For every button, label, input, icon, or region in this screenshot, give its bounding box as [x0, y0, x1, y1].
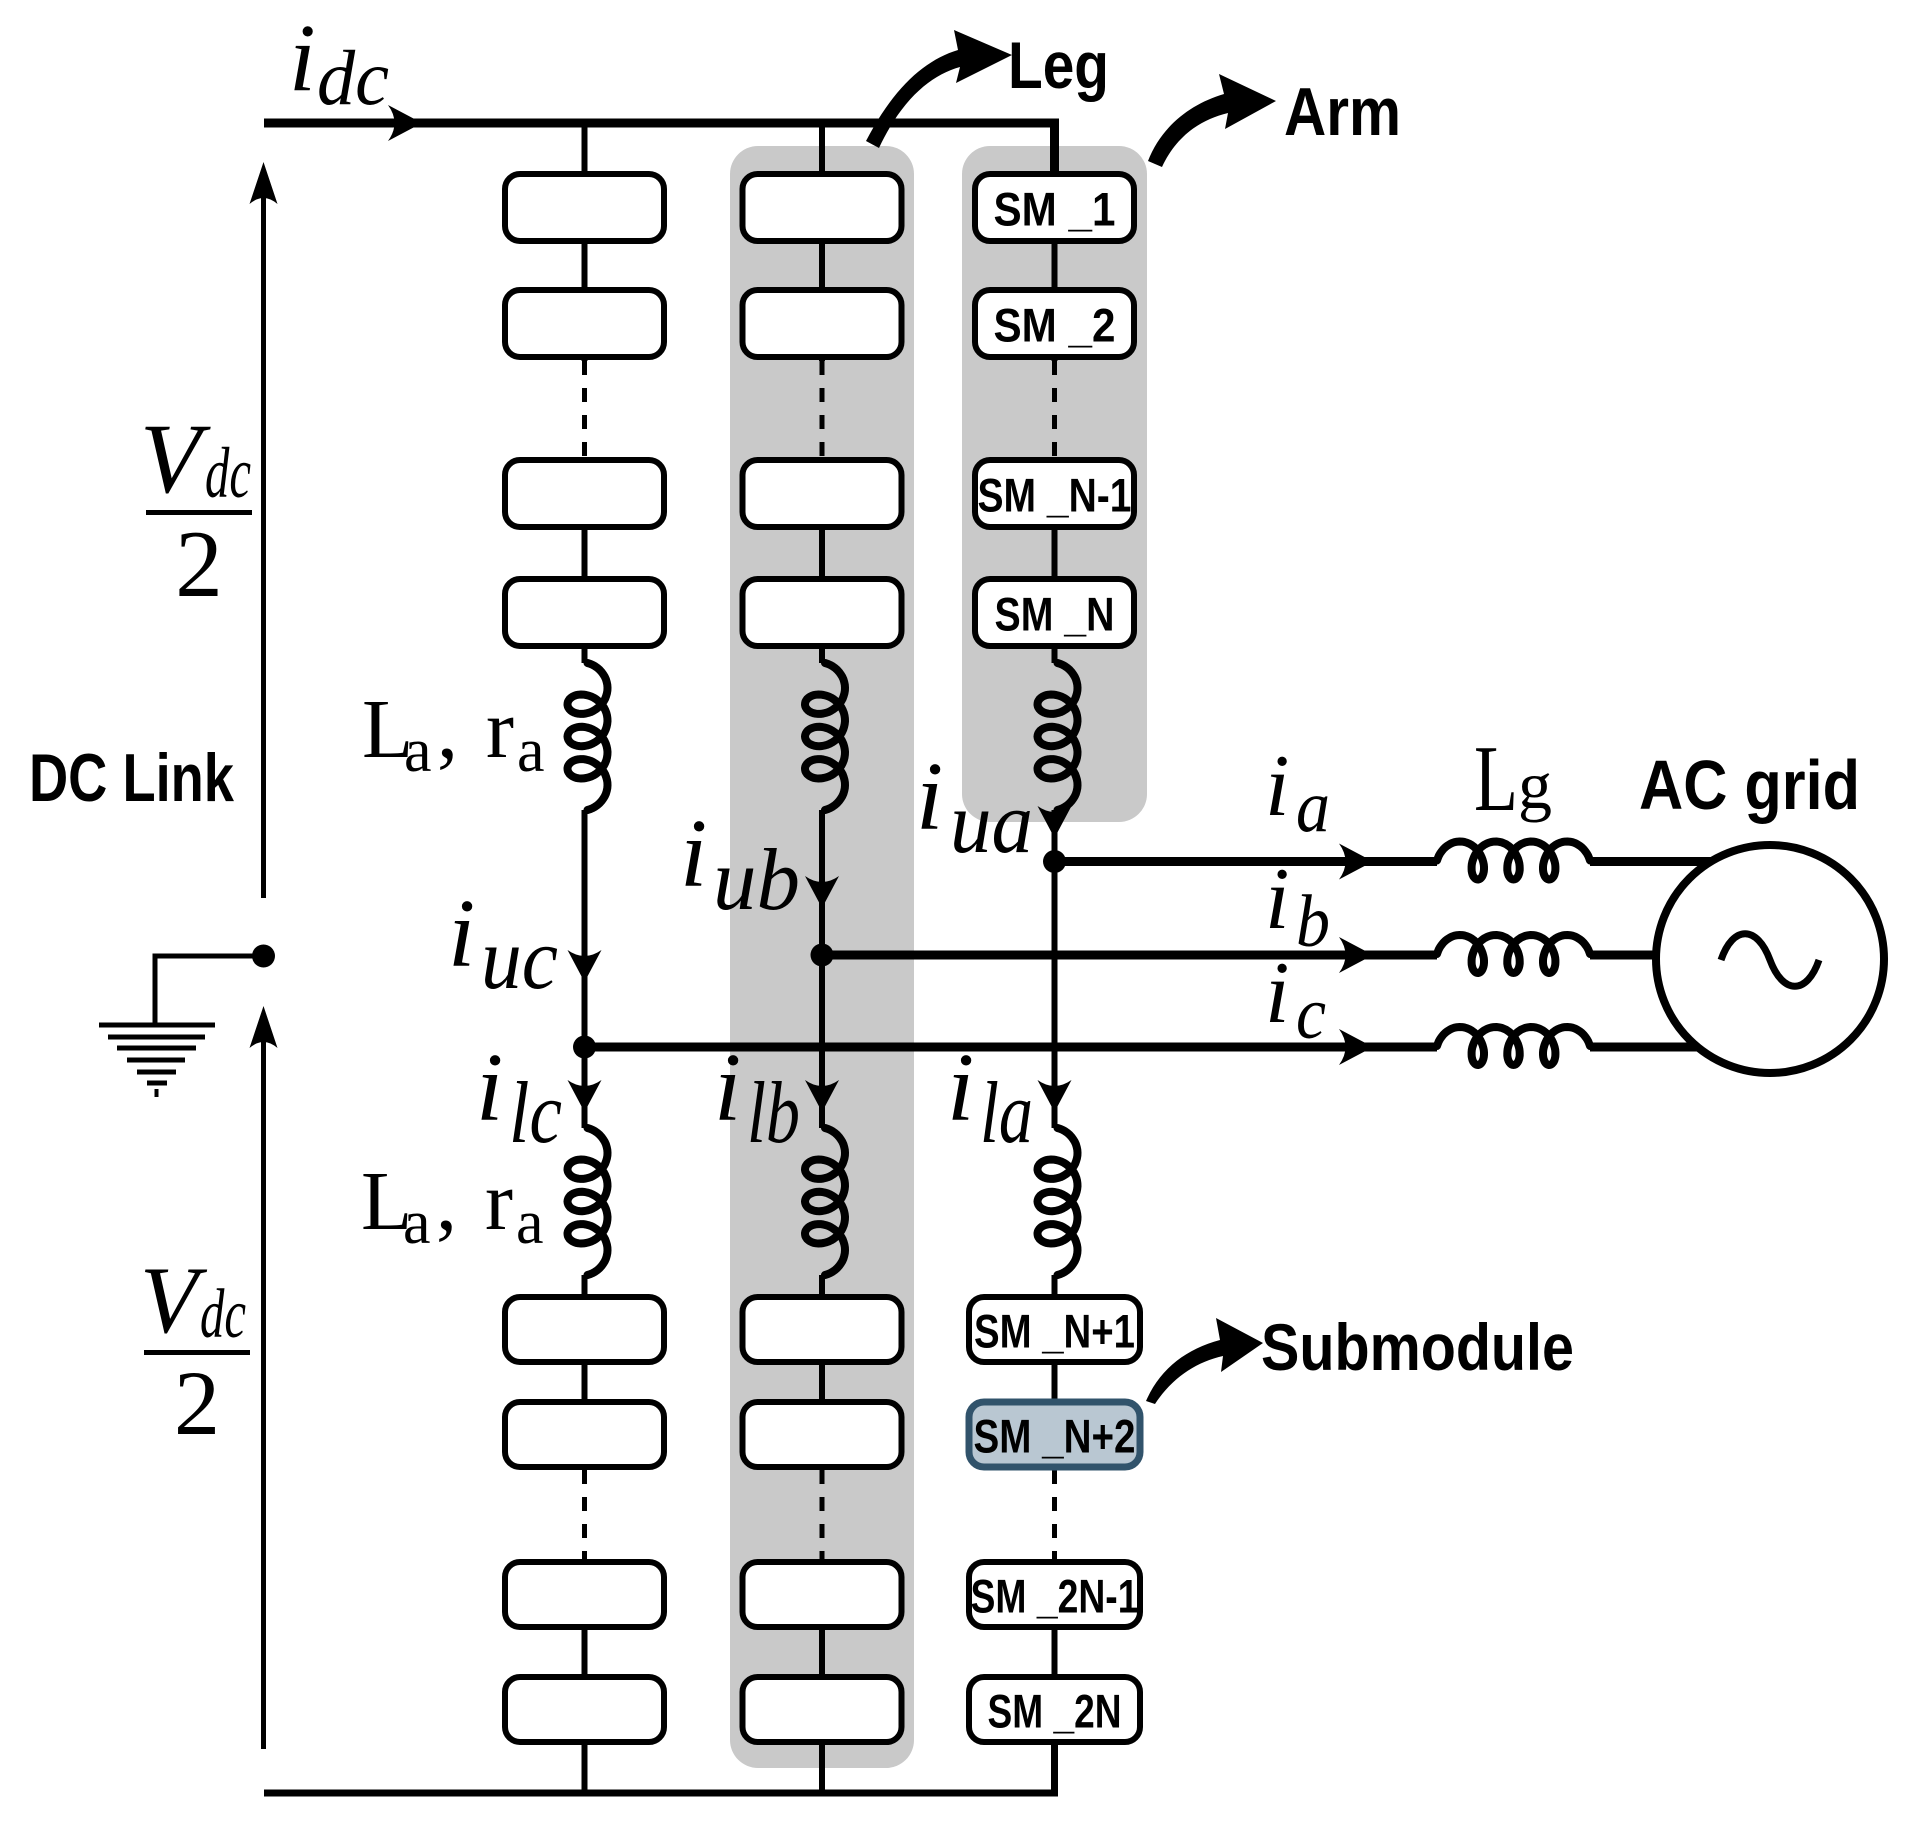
- submodule box c-leg upper arm #2: [505, 290, 664, 357]
- svg-text:SM _N: SM _N: [995, 588, 1115, 641]
- submodule box b-leg lower arm #3: [743, 1562, 902, 1627]
- grid inductor Lg phase-c: [1437, 1042, 1590, 1052]
- AC grid voltage source circle: [1656, 845, 1884, 1073]
- svg-text:i: i: [680, 800, 707, 908]
- svg-text:lc: lc: [509, 1065, 562, 1162]
- svg-text:SM _2: SM _2: [994, 299, 1116, 352]
- svg-text:2: 2: [174, 1352, 220, 1454]
- label La, ra (upper arm inductor): [362, 683, 545, 785]
- wire c-leg lower arm dashed continuation: [582, 1470, 587, 1559]
- submodule box c-leg upper arm #1: [505, 174, 664, 241]
- svg-text:,: ,: [437, 683, 458, 776]
- current arrowhead i_ua (upper arm): [1038, 806, 1072, 838]
- grid inductor Lg phase-b: [1437, 950, 1590, 960]
- svg-text:dc: dc: [317, 34, 389, 121]
- svg-text:a: a: [404, 717, 432, 785]
- callout arrow to "Submodule": [1146, 1318, 1263, 1404]
- submodule box c-leg lower arm #3: [505, 1562, 664, 1627]
- wire phase-a output line: [1055, 857, 1771, 866]
- svg-text:i: i: [1265, 738, 1289, 835]
- svg-text:uc: uc: [481, 911, 558, 1008]
- wire a-leg upper arm dashed continuation: [1052, 361, 1057, 457]
- svg-text:a: a: [403, 1189, 431, 1257]
- svg-text:a: a: [1296, 766, 1330, 848]
- wire a-leg lower arm (node to inductor): [1052, 862, 1058, 1129]
- callout arrow to "Leg": [866, 30, 1012, 148]
- svg-text:SM _2N-1: SM _2N-1: [971, 1570, 1139, 1623]
- arm inductor La,ra upper a-leg: [1038, 663, 1078, 810]
- submodule box c-leg lower arm #4: [505, 1677, 664, 1742]
- submodule SM_2 (a-leg upper arm): [975, 290, 1134, 357]
- wire c-leg upper arm (inductor to AC node): [582, 810, 588, 1047]
- svg-text:SM _N+1: SM _N+1: [974, 1305, 1135, 1358]
- svg-text:i: i: [289, 4, 316, 111]
- arm inductor La,ra lower a-leg: [1038, 1128, 1078, 1275]
- Vdc/2 upper measurement arrow: [250, 162, 278, 898]
- current arrowhead i_b on phase-b line: [1339, 937, 1373, 973]
- svg-text:SM _N+2: SM _N+2: [974, 1410, 1136, 1463]
- current arrowhead i_lc (lower arm): [568, 1080, 602, 1112]
- wire DC+ top bus: [264, 123, 1055, 180]
- svg-text:2: 2: [175, 511, 223, 617]
- wire b-leg upper arm (bus to dashed gap): [819, 123, 825, 361]
- wire c-leg upper arm dashed continuation: [582, 361, 587, 457]
- svg-text:i: i: [916, 743, 943, 851]
- submodule box c-leg lower arm #1: [505, 1297, 664, 1362]
- wire b-leg upper arm dashed continuation: [820, 361, 825, 457]
- label i_ua: [916, 743, 1033, 872]
- svg-text:lb: lb: [747, 1065, 800, 1162]
- current arrowhead i_uc (upper arm): [568, 950, 602, 982]
- wire a-leg upper arm (bus to dashed gap): [1052, 123, 1058, 361]
- wire DC- bottom bus: [264, 1744, 1055, 1793]
- svg-text:V: V: [140, 1247, 208, 1353]
- submodule box c-leg upper arm #4: [505, 579, 664, 646]
- label i_ub: [680, 800, 800, 929]
- wire phase-c output line: [585, 1043, 1771, 1052]
- svg-text:ua: ua: [950, 775, 1033, 872]
- ground wire: [155, 956, 264, 1026]
- svg-text:la: la: [980, 1065, 1033, 1162]
- wire phase-b output line: [822, 951, 1770, 960]
- submodule box b-leg upper arm #3: [743, 460, 902, 527]
- wire b-leg upper arm (inductor to AC node): [819, 810, 825, 955]
- svg-text:dc: dc: [205, 433, 251, 513]
- svg-text:L: L: [1474, 727, 1518, 831]
- i_dc current arrowhead on top bus: [388, 105, 422, 141]
- submodule SM_N (a-leg upper arm): [975, 579, 1134, 646]
- label i_uc: [448, 880, 558, 1008]
- wire a-leg upper arm (inductor to AC node): [1052, 810, 1058, 862]
- ground symbol: [99, 1025, 215, 1097]
- submodule box c-leg upper arm #3: [505, 460, 664, 527]
- svg-text:a: a: [517, 717, 545, 785]
- svg-text:i: i: [1265, 945, 1289, 1042]
- label Lg (grid inductor): [1474, 727, 1552, 831]
- wire a-leg lower arm dashed continuation: [1052, 1470, 1057, 1559]
- svg-text:SM _1: SM _1: [994, 183, 1116, 236]
- wire c-leg upper arm (bus to dashed gap): [582, 123, 588, 361]
- submodule box b-leg upper arm #4: [743, 579, 902, 646]
- wire b-leg lower arm dashed continuation: [820, 1470, 825, 1559]
- label i_lc: [476, 1034, 562, 1162]
- label i_b: [1265, 851, 1330, 963]
- submodule box b-leg lower arm #1: [743, 1297, 902, 1362]
- label La, ra (lower arm inductor): [361, 1155, 544, 1257]
- current arrowhead i_a on phase-a line: [1339, 844, 1373, 880]
- leg highlight band (phase b leg): [730, 146, 914, 1768]
- label i_la: [947, 1034, 1033, 1162]
- svg-text:b: b: [1296, 881, 1330, 963]
- submodule SM_N-1 (a-leg upper arm): [975, 460, 1134, 527]
- submodule SM_2N-1 (a-leg lower arm): [969, 1562, 1140, 1627]
- callout arrow to "Arm": [1148, 74, 1276, 167]
- svg-text:i: i: [448, 880, 475, 988]
- wire c-leg lower arm (node to inductor): [582, 1047, 588, 1128]
- svg-text:Leg: Leg: [1008, 28, 1109, 102]
- svg-text:,: ,: [436, 1155, 457, 1248]
- submodule box b-leg upper arm #1: [743, 174, 902, 241]
- wire b-leg upper arm (to arm inductor): [819, 457, 825, 663]
- wire b-leg lower arm (node to inductor): [819, 955, 825, 1128]
- current arrowhead i_c on phase-c line: [1339, 1029, 1373, 1065]
- label i_a: [1265, 738, 1330, 848]
- submodule box c-leg lower arm #2: [505, 1402, 664, 1467]
- arm inductor La,ra lower c-leg: [568, 1128, 608, 1275]
- svg-text:a: a: [516, 1189, 544, 1257]
- node phase-c junction dot: [573, 1036, 596, 1059]
- node phase-b junction dot: [811, 944, 834, 967]
- submodule box b-leg lower arm #4: [743, 1677, 902, 1742]
- wire a-leg lower arm (to bottom bus): [1052, 1559, 1058, 1793]
- submodule SM_1 (a-leg upper arm): [975, 174, 1134, 241]
- svg-text:i: i: [1265, 851, 1289, 948]
- arm inductor La,ra lower b-leg: [805, 1128, 845, 1275]
- wire c-leg upper arm (to arm inductor): [582, 457, 588, 663]
- svg-text:dc: dc: [200, 1276, 246, 1353]
- current arrowhead i_la (lower arm): [1038, 1080, 1072, 1112]
- wire c-leg lower arm (to bottom bus): [582, 1559, 588, 1793]
- wire a-leg upper arm (to arm inductor): [1052, 457, 1058, 663]
- current arrowhead i_ub (upper arm): [805, 876, 839, 908]
- svg-text:Arm: Arm: [1284, 74, 1401, 150]
- submodule box b-leg lower arm #2: [743, 1402, 902, 1467]
- Vdc/2 lower measurement arrow: [250, 1006, 278, 1749]
- grid inductor Lg phase-a: [1437, 857, 1590, 867]
- label Vdc/2 upper: [140, 403, 252, 617]
- submodule SM_N+1 (a-leg lower arm): [969, 1297, 1140, 1362]
- node phase-a junction dot: [1043, 850, 1066, 873]
- svg-text:r: r: [485, 1155, 513, 1248]
- svg-text:g: g: [1518, 747, 1552, 823]
- label i_dc: [289, 4, 389, 121]
- svg-text:i: i: [714, 1034, 741, 1142]
- svg-text:SM _2N: SM _2N: [988, 1685, 1122, 1738]
- svg-text:r: r: [486, 683, 514, 776]
- svg-text:i: i: [947, 1034, 974, 1142]
- svg-text:SM _N-1: SM _N-1: [978, 469, 1132, 522]
- submodule SM_2N (a-leg lower arm): [969, 1677, 1140, 1742]
- svg-text:i: i: [476, 1034, 503, 1142]
- submodule box b-leg upper arm #2: [743, 290, 902, 357]
- svg-text:Submodule: Submodule: [1261, 1310, 1574, 1384]
- arm inductor La,ra upper b-leg: [805, 663, 845, 810]
- svg-text:DC Link: DC Link: [29, 740, 234, 816]
- wire c-leg lower arm (inductor to dashed gap): [582, 1275, 588, 1470]
- submodule SM_N+2 (a-leg lower arm) highlighted: [969, 1402, 1140, 1467]
- arm inductor La,ra upper c-leg: [568, 663, 608, 810]
- label i_c: [1265, 945, 1326, 1055]
- label Vdc/2 lower: [140, 1247, 250, 1454]
- current arrowhead i_lb (lower arm): [805, 1080, 839, 1112]
- svg-text:ub: ub: [713, 832, 800, 929]
- wire b-leg lower arm (inductor to dashed gap): [819, 1275, 825, 1470]
- label i_lb: [714, 1034, 800, 1162]
- wire a-leg lower arm (inductor to dashed gap): [1052, 1275, 1058, 1470]
- DC midpoint node dot: [252, 945, 275, 968]
- arm highlight band (phase a upper arm): [962, 146, 1147, 822]
- svg-text:AC grid: AC grid: [1639, 746, 1860, 824]
- wire b-leg lower arm (to bottom bus): [819, 1559, 825, 1793]
- svg-text:c: c: [1296, 973, 1326, 1055]
- AC source sine symbol: [1721, 934, 1819, 987]
- svg-text:V: V: [140, 403, 211, 514]
